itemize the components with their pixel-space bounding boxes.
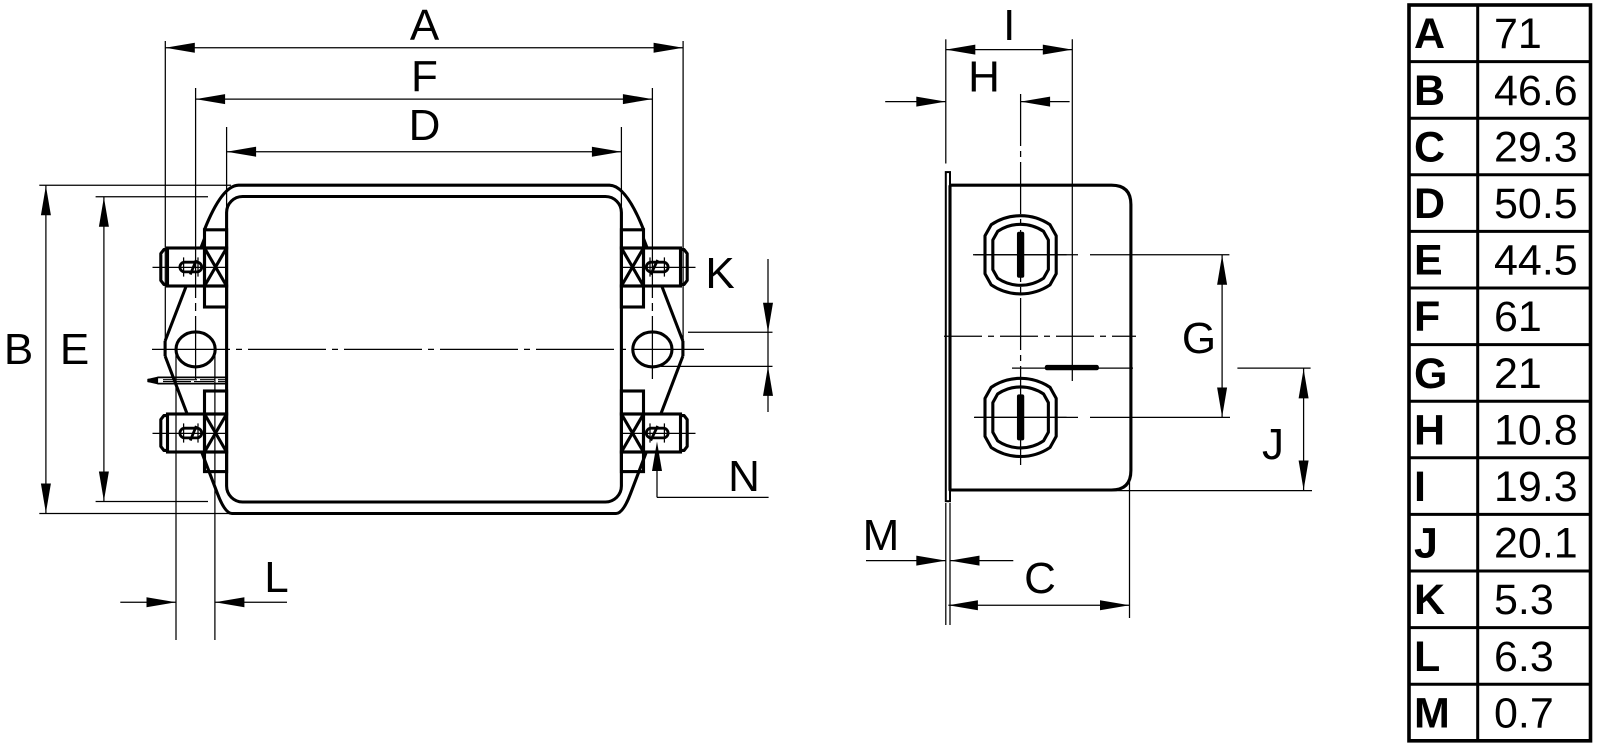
dimension E label [60,325,89,374]
front view: lower-right quick-connect terminal tab [621,414,695,452]
svg-text:19.3: 19.3 [1494,463,1578,511]
side view: terminal vertical centerline [1020,94,1022,465]
front view: right wing plate rect above upper terminal [621,230,643,248]
svg-text:I: I [1003,1,1015,50]
dimension I left extension line [945,39,947,163]
dimension N leader line and arrow [652,442,769,498]
dimension M label [863,511,900,560]
svg-text:E: E [1414,237,1443,285]
front view: horizontal centerline [152,348,704,350]
dimension F label [411,52,438,101]
side view: lower terminal (socket with slot) [975,378,1067,456]
front view: left wing plate rect above lower terminal [205,391,227,414]
dimension N label [728,452,760,501]
svg-text:I: I [1414,463,1426,511]
svg-text:H: H [968,53,1000,102]
svg-text:A: A [1414,10,1445,58]
dimension K extension lines [661,332,773,366]
front view: upper-right quick-connect terminal tab [621,248,695,286]
svg-text:G: G [1182,314,1216,363]
svg-text:6.3: 6.3 [1494,633,1554,681]
svg-text:D: D [1414,180,1445,228]
front view: right vertical centerline (through tabs and hole) [651,88,653,379]
dimension A extension lines [165,41,683,345]
side view: middle slot (filled bar) [1045,365,1099,370]
side view: horizontal centerline [944,335,1136,337]
svg-text:61: 61 [1494,293,1542,341]
side view: filter body outline [950,185,1131,490]
svg-text:5.3: 5.3 [1494,576,1554,624]
dimension M arrows (outside) [866,556,1013,566]
svg-text:K: K [1414,576,1445,624]
svg-text:L: L [264,553,288,602]
dimension H arrows (outside) [885,97,1069,107]
dimension C label [1024,554,1056,603]
side view: middle slot centerline / J top extension [1012,367,1311,369]
svg-text:N: N [728,452,760,501]
svg-text:50.5: 50.5 [1494,180,1578,228]
dimension M extension lines (flange faces extended) [946,503,950,625]
dimension B label [4,325,33,374]
svg-text:K: K [705,249,734,298]
svg-text:F: F [411,52,438,101]
svg-text:46.6: 46.6 [1494,67,1578,115]
svg-text:G: G [1414,350,1447,398]
dimension C line with arrows [948,600,1129,610]
dimension A line with arrows [165,43,683,53]
svg-text:M: M [1414,689,1450,737]
svg-text:E: E [60,325,89,374]
front view: lower-left quick-connect terminal tab [153,414,227,452]
svg-text:J: J [1414,520,1438,568]
dimension table grid [1409,5,1591,741]
front view: right wing upper edge [644,239,683,342]
dimension I line with arrows [946,45,1073,55]
side view: lower terminal horizontal centerline / G bottom extension [974,416,1230,418]
svg-text:29.3: 29.3 [1494,123,1578,171]
svg-text:H: H [1414,406,1445,454]
svg-text:J: J [1262,420,1284,469]
dimension K line with outside arrows [763,259,773,412]
side view: slot vertical centerline / I right extension [1071,39,1073,381]
svg-text:20.1: 20.1 [1494,520,1578,568]
front view: left wing upper edge [165,239,204,342]
svg-text:L: L [1414,633,1440,681]
svg-text:71: 71 [1494,10,1542,58]
front view: right upper terminal X-block [621,248,643,286]
front view: left wing plate rect below lower terminal [205,452,227,472]
side view: mounting flange plate [946,172,950,501]
dimension table text [1414,10,1578,737]
dimension L label [264,553,288,602]
svg-text:0.7: 0.7 [1494,689,1554,737]
svg-text:21: 21 [1494,350,1542,398]
dimension I label [1003,1,1015,50]
svg-text:10.8: 10.8 [1494,406,1578,454]
svg-text:M: M [863,511,900,560]
front view: right mounting hole (oval) [633,332,672,367]
svg-text:D: D [409,101,441,150]
front view: metal cover top with flared sides [204,185,643,230]
dimension H label [968,53,1000,102]
dimension D line with arrows [227,147,622,157]
dimension F line with arrows [196,94,653,104]
dimension A label [410,1,440,50]
dimension D label [409,101,441,150]
dimension B extension lines [39,185,232,513]
dimension D extension lines [227,127,622,214]
dimension G line with arrows [1217,255,1227,418]
svg-text:C: C [1414,123,1445,171]
front view: left wing plate rect below upper terminal [205,286,227,307]
dimension E line with arrows [99,197,109,502]
side view: upper terminal horizontal centerline / G top extension [973,254,1229,256]
front view: right wing plate rect below lower terminal [621,452,643,472]
front view: left wing plate rect above upper terminal [205,230,227,248]
dimension J label [1262,420,1284,469]
front view: filter body (plastic case, rounded rectangle) [227,197,622,503]
front view: left mounting hole (oval) [176,332,215,367]
front view: right wing plate rect below upper terminal [621,286,643,307]
front view: metal cover bottom with flared sides [202,452,647,514]
front view: left upper terminal X-block [205,248,227,286]
dimension G label [1182,314,1216,363]
dimension J line with arrows [1299,368,1309,490]
svg-text:C: C [1024,554,1056,603]
svg-text:B: B [1414,67,1445,115]
side view: upper terminal (socket with slot) [975,216,1067,294]
dimension K label [705,249,734,298]
dimension L extension lines (hole tangents) [176,350,215,640]
svg-text:44.5: 44.5 [1494,237,1578,285]
dimension E extension lines [96,197,208,502]
svg-text:A: A [410,1,440,50]
dimension J bottom extension line (body bottom) [1098,490,1312,492]
front view: left vertical centerline (through tabs and hole) [195,88,197,379]
front view: left lower terminal X-block [205,414,227,452]
front view: solder pin (pointed, left side) [148,377,227,383]
front view: upper-left quick-connect terminal tab [153,248,227,286]
dimension L arrows (outside) [120,597,287,607]
front view: right wing lower edge [661,356,683,414]
front view: right wing plate rect above lower terminal [621,391,643,414]
svg-text:F: F [1414,293,1440,341]
front view: left wing lower edge [165,356,187,414]
front view: right wing vertex edge [681,341,684,356]
front view: left wing vertex edge [164,341,167,356]
dimension B line with arrows [41,185,51,513]
front view: right lower terminal X-block [621,414,643,452]
dimension C right extension line [1129,480,1131,618]
svg-text:B: B [4,325,33,374]
